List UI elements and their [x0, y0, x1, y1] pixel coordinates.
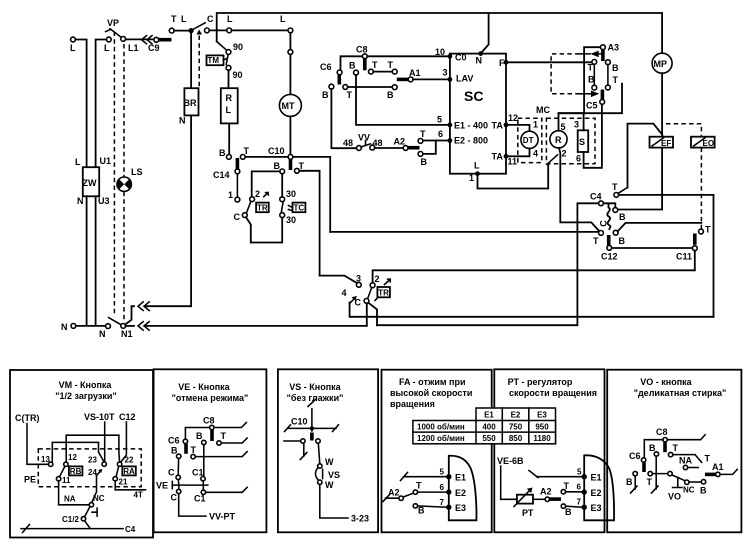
wire B(A2) up: [423, 141, 436, 154]
terminal N far left: [61, 322, 76, 332]
svg-text:NA: NA: [64, 495, 76, 504]
svg-text:R: R: [226, 93, 233, 103]
wire R.5 up to A3 row: [559, 113, 585, 131]
FA contact T: [413, 481, 422, 495]
VO contact B of C8: [649, 443, 659, 456]
connector A3 bar: [601, 50, 605, 61]
VE actuator: [156, 481, 208, 491]
VS C10 stem: [291, 400, 316, 432]
svg-text:DT: DT: [523, 136, 534, 145]
FA wire T to E2: [418, 491, 447, 493]
svg-text:Е3: Е3: [455, 503, 466, 513]
svg-text:C1: C1: [194, 494, 206, 504]
link diamond: [196, 30, 202, 35]
FA pin E3: [440, 498, 467, 513]
connector on MT wire: [288, 50, 293, 55]
pin 10: [435, 47, 452, 59]
pin 6: [438, 129, 452, 143]
VO connector C6: [629, 451, 646, 472]
connector A1: [397, 68, 421, 82]
svg-text:VM - Кнопка: VM - Кнопка: [59, 380, 113, 390]
pin 1 of C14: [228, 174, 240, 202]
svg-text:5: 5: [577, 468, 582, 477]
VE contact B of C6: [171, 446, 181, 459]
svg-text:TA: TA: [492, 152, 504, 162]
wire F to pressostat: [506, 61, 592, 63]
wire C(TR) to 13: [27, 424, 48, 465]
svg-text:B: B: [619, 212, 626, 222]
motor MT: [279, 94, 301, 116]
svg-text:C4: C4: [125, 525, 136, 534]
thermostat TM: [207, 55, 228, 65]
svg-text:B: B: [619, 236, 626, 246]
terminal 4 arrow of TR2: [342, 288, 357, 304]
svg-text:T: T: [593, 236, 599, 246]
PT wire to A2: [533, 498, 545, 500]
svg-text:C9: C9: [148, 43, 160, 53]
svg-text:12: 12: [508, 113, 518, 123]
wire EF feed diagonal: [628, 124, 663, 188]
svg-text:C: C: [168, 468, 175, 478]
contact T above C11: [699, 225, 711, 235]
valve EO: [691, 137, 715, 148]
svg-text:7: 7: [440, 498, 445, 507]
svg-text:высокой скорости: высокой скорости: [390, 388, 472, 398]
tacho DT: [521, 131, 538, 148]
svg-text:N: N: [77, 196, 84, 206]
svg-text:T: T: [420, 129, 426, 139]
svg-text:1000 об/мин: 1000 об/мин: [417, 423, 465, 432]
svg-text:C12: C12: [601, 252, 618, 262]
dashed link EO down: [700, 148, 702, 229]
svg-text:R: R: [555, 135, 562, 145]
svg-text:48: 48: [343, 138, 353, 148]
thermostat TC: [289, 203, 306, 213]
svg-text:VE: VE: [156, 481, 168, 491]
switch blade TR2 C-2: [368, 288, 372, 299]
svg-text:B: B: [418, 506, 425, 516]
svg-text:11: 11: [508, 157, 518, 167]
svg-text:B: B: [421, 157, 428, 167]
svg-text:C4: C4: [590, 192, 602, 202]
switch VV: [343, 133, 383, 151]
svg-text:T: T: [673, 443, 679, 453]
svg-text:C8: C8: [203, 416, 215, 426]
svg-text:N: N: [476, 56, 483, 66]
svg-text:B: B: [171, 446, 178, 456]
wire L junction to BR: [190, 33, 192, 87]
wire A1 to SC.3: [413, 78, 448, 80]
VE contact C1 top: [192, 468, 205, 481]
wire RL to B: [228, 123, 230, 154]
svg-text:1200 об/мин: 1200 об/мин: [417, 434, 465, 443]
stub wire right of C5: [559, 84, 623, 114]
svg-text:30: 30: [286, 189, 296, 199]
contact 3 of TR: [356, 274, 361, 288]
svg-text:LS: LS: [131, 167, 143, 177]
FA pin E1: [440, 468, 467, 483]
speed table: [413, 408, 556, 444]
wire NA from 11: [59, 481, 90, 505]
switch blade MC: [547, 155, 558, 165]
svg-text:750: 750: [509, 423, 523, 432]
svg-text:T: T: [647, 477, 653, 487]
contact B of A2: [418, 152, 427, 168]
connector C4: [590, 192, 603, 206]
svg-text:1: 1: [228, 190, 233, 200]
VO contact T of C6: [647, 471, 653, 487]
wire C(TR) down: [246, 217, 251, 242]
FA E1 stub tick: [401, 473, 447, 481]
svg-text:2: 2: [255, 189, 260, 199]
svg-text:30: 30: [286, 215, 296, 225]
PT contact B: [561, 504, 572, 517]
VS wire to 3-23: [320, 484, 369, 523]
mech link dashed to BR: [198, 36, 200, 88]
VE wire C8 left: [185, 428, 209, 440]
terminal N of switch: [99, 324, 110, 339]
PT wire B to E3: [566, 506, 582, 507]
svg-text:скорости вращения: скорости вращения: [509, 388, 597, 398]
svg-text:B: B: [588, 75, 595, 85]
VE connector C6: [168, 436, 188, 454]
svg-text:РТ: РТ: [522, 508, 534, 518]
contact B of C8: [349, 61, 358, 76]
svg-text:BR: BR: [184, 98, 197, 108]
VO connector A1: [705, 462, 737, 477]
svg-text:C10: C10: [291, 417, 308, 427]
wire T to C10 row: [245, 156, 288, 158]
MAIN SCHEMATIC: [61, 13, 715, 339]
svg-text:B: B: [349, 61, 356, 71]
VS contact right: [316, 439, 320, 443]
VO contact B of C6: [626, 471, 637, 487]
legend box VO: [607, 370, 741, 533]
svg-text:2: 2: [375, 274, 380, 284]
svg-text:VO: VO: [668, 492, 681, 502]
wire VE-6B to PT: [501, 466, 516, 499]
pressostat dashed link box: [551, 54, 579, 94]
VO contact NA: [679, 456, 698, 470]
PT connector A2: [540, 487, 561, 502]
contact 12: [64, 453, 78, 466]
svg-text:C14: C14: [213, 170, 230, 180]
svg-text:W: W: [325, 457, 334, 467]
NC tick: [92, 508, 97, 516]
svg-text:TR: TR: [257, 203, 268, 212]
contact 21: [113, 477, 128, 487]
switch L-C blade: [192, 23, 205, 30]
wire TA11 to DT: [508, 149, 538, 159]
top frame wire: [217, 13, 662, 53]
VO wire B(C8) drop tick: [652, 456, 659, 493]
svg-text:850: 850: [509, 434, 523, 443]
svg-text:FA - отжим при: FA - отжим при: [399, 377, 466, 387]
pin TA 11: [504, 154, 517, 167]
node L junction: [181, 14, 194, 33]
svg-text:А2: А2: [388, 488, 400, 498]
VE connector C8: [203, 416, 215, 442]
VO contact T of C8: [668, 443, 678, 457]
contact B of C10: [274, 161, 285, 174]
connector A2: [394, 137, 420, 151]
relay RA: [122, 466, 136, 476]
VO actuator: [668, 479, 682, 502]
wire N row left: [76, 325, 106, 327]
svg-text:11: 11: [62, 476, 71, 485]
svg-text:90: 90: [233, 70, 243, 80]
VS connector C10 bar: [310, 433, 314, 441]
svg-text:"отмена режима": "отмена режима": [172, 393, 249, 403]
contact B bottom of cluster: [613, 230, 625, 246]
switch 90: [217, 42, 243, 81]
tacho DT dashed box: [518, 118, 542, 162]
wire C12 to C11: [612, 247, 693, 249]
protector MC dashed box: [536, 105, 595, 164]
svg-text:T: T: [612, 182, 618, 192]
svg-text:L1: L1: [128, 43, 139, 53]
connector C14 circle: [213, 169, 240, 180]
VO wire C8 right tick: [667, 435, 705, 440]
svg-text:C0: C0: [455, 53, 467, 63]
terminal N1: [121, 324, 133, 340]
svg-text:C: C: [598, 220, 608, 227]
svg-text:Е2: Е2: [455, 488, 466, 498]
wire row2 to cluster T: [330, 231, 599, 233]
svg-text:Е3: Е3: [537, 411, 547, 420]
relay RL: [221, 88, 238, 123]
connector C6 bar: [337, 75, 341, 85]
wire N riser: [481, 13, 489, 53]
svg-text:"деликатная стирка": "деликатная стирка": [634, 388, 727, 398]
svg-text:SC: SC: [464, 88, 483, 104]
wire C12 to 22: [121, 422, 126, 462]
wire TR-TC bottom U: [251, 218, 282, 243]
connector chevrons row1: [138, 302, 149, 311]
svg-text:LAV: LAV: [456, 74, 473, 84]
pin N: [478, 51, 483, 56]
svg-text:3: 3: [574, 120, 579, 130]
pressostat contact B-T right: [606, 60, 620, 90]
svg-text:А2: А2: [540, 487, 552, 497]
svg-text:L: L: [474, 161, 480, 171]
VE wire C8 right tick: [214, 423, 246, 428]
pin TA 12: [504, 113, 518, 128]
legend box VS: [278, 369, 378, 532]
VO contact pivot: [668, 471, 672, 475]
svg-text:B: B: [322, 90, 329, 100]
contact B top of cluster: [613, 208, 626, 222]
FA wire B to E3: [418, 506, 447, 507]
wire rail1 12-22: [66, 435, 119, 462]
svg-text:РТ - регулятор: РТ - регулятор: [508, 377, 573, 387]
svg-text:В: В: [565, 507, 572, 517]
svg-text:4: 4: [533, 149, 538, 159]
VE wire to VV-PT: [179, 494, 236, 522]
arrow at C5 bar: [579, 91, 599, 98]
timer cam TR2: [375, 279, 390, 300]
svg-text:1: 1: [469, 173, 474, 183]
svg-text:TM: TM: [208, 56, 220, 65]
PT pin E2: [577, 483, 602, 499]
wire C(TR2) diagonal down: [368, 303, 377, 326]
dashed link EF-EO: [666, 124, 701, 136]
svg-text:L: L: [226, 105, 232, 115]
switch C1/2 top contact: [89, 503, 93, 507]
pin 3: [443, 68, 453, 82]
svg-text:ZW: ZW: [83, 178, 97, 188]
connector C6: [320, 62, 342, 75]
svg-text:A3: A3: [608, 43, 620, 53]
arrow 24: [88, 468, 102, 477]
svg-text:C(TR): C(TR): [15, 413, 40, 423]
svg-text:6: 6: [576, 154, 581, 164]
VE blade B-C: [177, 459, 179, 476]
pin 1 (L): [469, 171, 480, 183]
contact T of cluster: [593, 231, 603, 247]
svg-text:B: B: [649, 443, 656, 453]
svg-text:VE-6В: VE-6В: [497, 456, 524, 466]
VE blade C pair: [177, 480, 180, 490]
terminal L1': [121, 37, 139, 54]
svg-text:VV: VV: [358, 133, 370, 143]
wire B(C6) to VV row: [331, 89, 356, 148]
connector C5: [586, 100, 605, 111]
wire B(C10) down to 30: [281, 174, 283, 197]
relay R of MC: [550, 122, 567, 159]
contact C of TR2: [355, 298, 369, 308]
svg-text:6: 6: [577, 483, 582, 492]
svg-text:2: 2: [562, 149, 567, 159]
wire T(A2) to SC.6: [423, 140, 448, 142]
wire S.3 riser to A3: [584, 47, 601, 130]
heater ZW: [75, 156, 111, 206]
svg-text:VV-PT: VV-PT: [209, 512, 236, 522]
svg-text:А1: А1: [712, 462, 724, 472]
potentiometer PT: [514, 488, 534, 519]
svg-text:T: T: [588, 63, 594, 73]
switch blade TC: [281, 202, 283, 213]
PT pin E3: [577, 498, 602, 514]
svg-text:550: 550: [482, 434, 496, 443]
wire row1 to BR: [145, 116, 192, 306]
VE contact C bottom: [171, 489, 181, 502]
connector A3: [601, 43, 620, 53]
svg-text:6: 6: [438, 129, 443, 139]
VO row T to blade contact: [652, 473, 667, 475]
svg-text:C8: C8: [356, 45, 368, 55]
svg-text:RB: RB: [70, 467, 82, 476]
svg-text:T: T: [705, 225, 711, 235]
wire T to L junction: [174, 30, 191, 32]
contact 2 of TR: [370, 274, 379, 288]
svg-text:4T: 4T: [134, 491, 143, 500]
FA A2 wire: [383, 488, 403, 502]
svg-text:RA: RA: [123, 467, 135, 476]
VE contact B of C8: [196, 431, 206, 445]
svg-text:B: B: [387, 90, 394, 100]
VO blade to NC: [672, 475, 685, 481]
svg-text:S: S: [579, 137, 585, 147]
moving blade C spring: [598, 204, 610, 229]
svg-text:Е2: Е2: [591, 488, 602, 498]
svg-text:VO - кнопка: VO - кнопка: [640, 377, 692, 387]
svg-text:13: 13: [41, 455, 50, 464]
svg-text:12: 12: [68, 453, 77, 462]
VO wire T row to NA blade: [673, 455, 702, 463]
svg-text:1180: 1180: [533, 434, 551, 443]
wire to contact 3: [320, 276, 358, 284]
switch N1 blade: [109, 318, 122, 325]
wire B(C8) to E1 row: [356, 75, 447, 125]
node L3: [227, 14, 233, 33]
PT E1 stub tick: [529, 471, 582, 478]
contact 23: [88, 456, 106, 467]
wire C4 to B contact: [603, 203, 615, 207]
contact C1/2: [62, 515, 86, 524]
VE contact C top: [168, 468, 180, 480]
VE wire C1 row tick: [206, 487, 248, 492]
svg-text:N: N: [179, 116, 186, 126]
wire C10 row to drop: [293, 157, 330, 232]
svg-text:U3: U3: [98, 196, 110, 206]
connector C8 bar: [363, 59, 367, 70]
svg-text:MP: MP: [654, 59, 668, 69]
wire N row right riser to C4: [377, 203, 599, 325]
svg-text:E2 - 800: E2 - 800: [454, 136, 488, 146]
wire TA12 to DT: [508, 120, 538, 132]
svg-text:L: L: [181, 14, 187, 24]
svg-text:T: T: [171, 14, 177, 24]
svg-text:L: L: [70, 43, 76, 53]
lamp LS: [117, 167, 143, 191]
wire MT to C10: [289, 116, 291, 154]
wire L3 to L4: [232, 29, 288, 31]
wire C to L3: [209, 29, 227, 31]
wire B bottom to EO link: [618, 223, 702, 231]
VE wire T2 row tick: [195, 452, 247, 457]
svg-text:3: 3: [356, 274, 361, 284]
legend box PT: [494, 369, 604, 532]
wire C11 down to TR2 row: [373, 251, 695, 288]
FA pin E2: [440, 483, 467, 498]
svg-text:5: 5: [437, 115, 442, 125]
FA cam plate: [449, 456, 477, 521]
switch VP: [106, 18, 122, 38]
contact B of C6: [322, 84, 334, 100]
svg-text:"без глажки": "без глажки": [287, 393, 344, 403]
svg-text:TC: TC: [294, 203, 305, 212]
svg-text:C: C: [171, 493, 178, 503]
svg-text:T: T: [388, 60, 394, 70]
wire MP to EF: [661, 73, 663, 136]
connector C11 bar: [693, 234, 697, 245]
svg-text:23: 23: [88, 456, 97, 465]
IC timer SC box: [450, 53, 506, 174]
VS contact left: [301, 439, 305, 443]
switch blade TR C-2: [246, 201, 251, 213]
bimetal S: [574, 120, 588, 164]
svg-text:MT: MT: [282, 101, 295, 111]
svg-text:22: 22: [125, 456, 134, 465]
contact pair T-T: [369, 60, 398, 74]
svg-text:VS: VS: [328, 470, 340, 480]
LEGEND: [10, 369, 741, 537]
svg-text:21: 21: [119, 478, 128, 487]
connector C10 bar: [289, 160, 293, 171]
svg-text:T: T: [299, 161, 305, 171]
svg-text:5: 5: [440, 468, 445, 477]
